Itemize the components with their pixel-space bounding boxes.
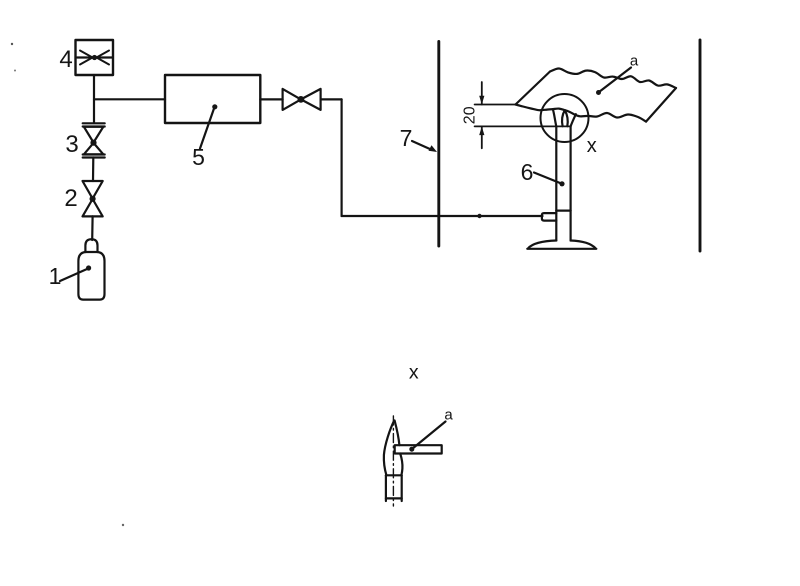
label 6 leader dot bbox=[559, 181, 564, 186]
detail flame right lower edge bbox=[400, 454, 402, 476]
detail flame right upper edge bbox=[395, 421, 400, 446]
dimension 20 lower arrow line bbox=[481, 126, 483, 148]
dimension 20 lower arrowhead bbox=[479, 126, 484, 135]
dimension 20 upper arrow line bbox=[481, 82, 483, 105]
scan speck bbox=[14, 70, 16, 72]
svg-text:4: 4 bbox=[59, 46, 72, 73]
wire valve3 to valve2 bbox=[92, 158, 95, 182]
valve 2 upper triangle bbox=[83, 181, 103, 199]
valve 2 lower triangle bbox=[83, 199, 103, 216]
wire valve to corner bbox=[321, 98, 342, 100]
burner 6 tube left wall bbox=[555, 126, 557, 240]
specimen a wavy top edge bbox=[550, 68, 676, 88]
label 6 leader bbox=[534, 173, 560, 184]
label 5 leader dot bbox=[212, 104, 217, 109]
valve 3 top flange bbox=[83, 122, 105, 124]
flow meter 5 box bbox=[165, 75, 260, 123]
flow restrictor internal line bbox=[77, 56, 112, 58]
scan speck bbox=[11, 43, 13, 45]
svg-text:x: x bbox=[409, 362, 419, 384]
screen 7 vertical line bbox=[437, 42, 440, 247]
specimen a wavy bottom edge bbox=[516, 105, 647, 122]
shut-off valve right triangle bbox=[301, 89, 321, 110]
flow restrictor U4 box bbox=[76, 40, 114, 75]
label 5 leader bbox=[200, 109, 214, 149]
wire horizontal to burner bbox=[342, 215, 543, 217]
svg-text:2: 2 bbox=[64, 185, 77, 212]
valve 3 bottom flange bbox=[83, 153, 105, 155]
flow restrictor right arrowhead bbox=[97, 51, 110, 65]
svg-text:3: 3 bbox=[65, 131, 78, 158]
dimension 20 upper arrowhead bbox=[479, 96, 484, 105]
detail specimen bar bbox=[395, 445, 442, 453]
specimen a left edge bbox=[516, 72, 551, 105]
burner 6 base left curve bbox=[528, 241, 556, 249]
svg-text:1: 1 bbox=[49, 263, 62, 289]
wire valve2 to cylinder bbox=[91, 216, 94, 240]
detail tube bottom edge bbox=[386, 497, 402, 499]
label 1 leader dot bbox=[86, 265, 91, 270]
label 7 leader bbox=[412, 141, 431, 150]
svg-text:a: a bbox=[444, 407, 453, 424]
svg-text:6: 6 bbox=[521, 159, 534, 185]
svg-text:a: a bbox=[630, 53, 639, 70]
valve 2 center dot bbox=[90, 196, 96, 202]
label a leader dot bbox=[596, 90, 601, 95]
shut-off valve center dot bbox=[298, 96, 305, 103]
flow restrictor left arrowhead bbox=[80, 51, 93, 65]
wire vertical down bbox=[341, 99, 343, 216]
valve 3 lower triangle bbox=[84, 143, 103, 154]
shut-off valve (horizontal) left triangle bbox=[283, 89, 301, 110]
label 7 arrowhead bbox=[429, 145, 438, 152]
wire box4 down to valve3 bbox=[93, 75, 95, 123]
svg-text:x: x bbox=[587, 135, 597, 157]
dimension 20 lower extension line bbox=[475, 125, 571, 127]
detail centerline (dash-dot) bbox=[392, 416, 394, 506]
label 1 leader bbox=[60, 269, 87, 281]
detail flame left edge bbox=[384, 421, 394, 476]
scan speck bbox=[122, 524, 124, 526]
detail label a leader dot bbox=[409, 447, 414, 452]
inner flame cone bbox=[562, 110, 568, 126]
wire branch to flow meter 5 bbox=[94, 98, 165, 100]
specimen a right edge bbox=[646, 88, 676, 122]
detail label a leader bbox=[413, 422, 445, 449]
burner 6 base right curve bbox=[571, 241, 596, 249]
detail circle bbox=[541, 94, 589, 142]
burner 6 base bottom line bbox=[527, 248, 596, 250]
detail tube left wall bbox=[385, 475, 387, 501]
svg-text:7: 7 bbox=[400, 125, 413, 151]
flame outer right line bbox=[571, 114, 576, 126]
label a leader bbox=[600, 68, 631, 92]
burner 6 tube joint line bbox=[556, 210, 570, 212]
detail nozzle joint line bbox=[386, 474, 402, 476]
valve 3 upper triangle bbox=[84, 127, 103, 143]
dimension 20 upper extension line bbox=[475, 104, 516, 106]
burner 6 tube right wall bbox=[569, 126, 571, 240]
flame outer left line bbox=[553, 109, 557, 126]
svg-text:5: 5 bbox=[192, 144, 205, 170]
detail tube right wall bbox=[401, 475, 403, 501]
burner 6 gas inlet stub bbox=[542, 213, 556, 221]
gas cylinder 1 body bbox=[78, 252, 104, 300]
wire junction dot bbox=[477, 214, 481, 218]
valve 3 center dot bbox=[90, 140, 96, 146]
right screen vertical line bbox=[699, 40, 702, 251]
flow restrictor center dot bbox=[92, 55, 97, 60]
gas cylinder 1 neck bbox=[85, 239, 97, 252]
svg-text:20: 20 bbox=[462, 106, 479, 124]
wire meter5 to valve bbox=[260, 98, 282, 100]
